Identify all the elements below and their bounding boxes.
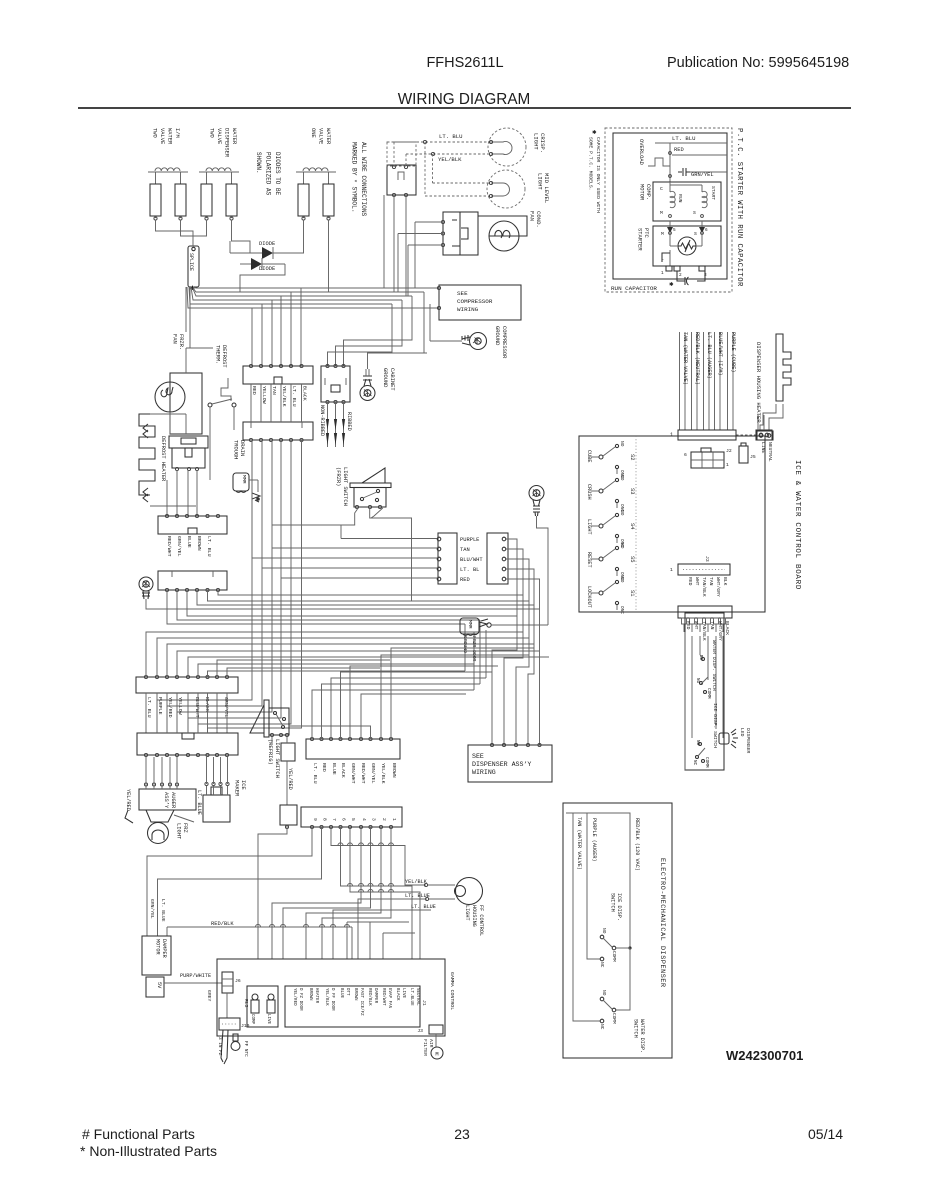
- svg-text:COMM: COMM: [611, 951, 617, 962]
- svg-text:BROWN: BROWN: [308, 988, 312, 1001]
- aux box: [280, 805, 297, 825]
- svg-text:FILTER: FILTER: [422, 1039, 428, 1056]
- damper motor: [142, 936, 171, 975]
- bypass capacitor GRN/YEL: [678, 168, 690, 176]
- svg-text:S1: S1: [629, 590, 635, 596]
- svg-text:STARTER: STARTER: [637, 228, 643, 251]
- svg-text:TAN (WATER VALVE): TAN (WATER VALVE): [576, 817, 582, 870]
- svg-text:S: S: [694, 231, 697, 237]
- PTC starter with run capacitor assembly: [605, 128, 732, 292]
- svg-text:MMM: MMM: [241, 475, 247, 484]
- svg-text:NO: NO: [695, 740, 700, 746]
- svg-text:RED/WHT: RED/WHT: [381, 988, 386, 1006]
- heater connector: [757, 431, 773, 440]
- svg-text:ALL WIRE CONNECTIONS: ALL WIRE CONNECTIONS: [360, 142, 367, 217]
- svg-text:MOTOR: MOTOR: [639, 184, 645, 201]
- svg-text:MOTOR: MOTOR: [155, 939, 161, 955]
- svg-text:6: 6: [684, 452, 687, 458]
- svg-text:YEL/BLK: YEL/BLK: [438, 156, 462, 163]
- defrost heater terminal block: [169, 436, 208, 448]
- svg-text:PURPLE (AUGER): PURPLE (AUGER): [591, 818, 597, 862]
- svg-text:FAN: FAN: [529, 211, 536, 221]
- svg-text:ONE: ONE: [310, 128, 316, 138]
- dispenser ground lug: [529, 486, 544, 501]
- svg-text:NO: NO: [619, 577, 625, 583]
- svg-text:RED/BLK (NEUTRAL): RED/BLK (NEUTRAL): [694, 332, 700, 385]
- svg-text:LT. BLUE: LT. BLUE: [196, 790, 202, 815]
- svg-text:MAKER: MAKER: [234, 780, 240, 797]
- svg-text:DIODES TO BE: DIODES TO BE: [274, 152, 281, 196]
- svg-text:NC: NC: [599, 962, 605, 968]
- svg-text:RED: RED: [685, 621, 691, 630]
- board line connector: [756, 430, 772, 440]
- svg-text:COMPRESSOR: COMPRESSOR: [457, 298, 493, 305]
- svg-text:J3: J3: [704, 556, 710, 562]
- svg-text:BLUE: BLUE: [331, 763, 337, 775]
- svg-text:DIODE: DIODE: [259, 266, 275, 272]
- svg-text:FAN: FAN: [172, 334, 178, 344]
- connector J6: [222, 972, 233, 993]
- svg-text:LIGHT SWITCH: LIGHT SWITCH: [274, 739, 280, 778]
- 5-pin connector refrig left: [438, 533, 457, 584]
- svg-text:RUN CAPACITOR: RUN CAPACITOR: [611, 285, 657, 292]
- svg-text:1: 1: [670, 567, 673, 573]
- svg-text:DISPENSER: DISPENSER: [745, 728, 751, 754]
- svg-text:LIGHT: LIGHT: [176, 823, 182, 840]
- svg-text:NEUTRAL: NEUTRAL: [767, 442, 773, 462]
- svg-text:TROUGH: TROUGH: [233, 440, 239, 459]
- svg-text:YEL/RED: YEL/RED: [292, 988, 297, 1006]
- svg-text:PURPLE: PURPLE: [460, 537, 479, 543]
- svg-text:D FZ DOOR: D FZ DOOR: [298, 988, 302, 1011]
- svg-text:J5: J5: [750, 454, 756, 460]
- connector right wires: [492, 539, 517, 745]
- defrost heater element: [139, 414, 155, 495]
- svg-text:J1: J1: [421, 1000, 427, 1006]
- svg-text:1: 1: [670, 432, 673, 438]
- wires to mid level light: [432, 154, 434, 183]
- svg-text:GROUND: GROUND: [494, 326, 500, 345]
- svg-text:YEL/RED: YEL/RED: [125, 789, 131, 811]
- svg-text:1: 1: [391, 818, 397, 821]
- svg-text:RUN: RUN: [677, 194, 683, 203]
- dispenser wires inside: [691, 636, 693, 738]
- svg-text:LIGHT: LIGHT: [533, 133, 540, 150]
- ff control housing light: [456, 878, 483, 905]
- junction drops near cabinet connector: [368, 292, 425, 353]
- svg-text:S2: S2: [629, 454, 635, 460]
- svg-text:NO: NO: [619, 510, 625, 516]
- hop bumps: [338, 843, 343, 846]
- PTC starter box: [653, 226, 721, 266]
- svg-text:COMM: COMM: [704, 757, 709, 768]
- svg-text:LIVE: LIVE: [401, 988, 405, 999]
- svg-text:WATER: WATER: [325, 128, 331, 145]
- svg-text:DISPENSER: DISPENSER: [224, 128, 230, 158]
- compressor ground lug: [470, 333, 487, 350]
- freezer light switch wires: [272, 509, 358, 525]
- svg-text:LT.BLUE: LT.BLUE: [409, 988, 413, 1006]
- svg-text:GRN/YEL: GRN/YEL: [149, 899, 155, 919]
- svg-text:SEE: SEE: [457, 290, 468, 297]
- condenser fan motor: [489, 221, 519, 251]
- svg-text:LIGHT: LIGHT: [586, 519, 592, 535]
- svg-text:MARKED BY * SYMBOL.: MARKED BY * SYMBOL.: [351, 142, 358, 213]
- FF NTC bulb: [233, 1034, 238, 1041]
- svg-text:FRZ: FRZ: [182, 823, 188, 833]
- svg-text:HOUSING: HOUSING: [471, 905, 477, 927]
- gamma control board: [217, 959, 445, 1036]
- see compressor wiring box: [439, 285, 521, 320]
- svg-text:NO: NO: [695, 678, 700, 684]
- svg-text:GRN/YEL: GRN/YEL: [176, 536, 182, 557]
- svg-text:FF NTC: FF NTC: [243, 1041, 248, 1057]
- cond fan wires: [415, 221, 443, 223]
- svg-text:LIGHT: LIGHT: [537, 173, 544, 190]
- svg-text:PURP/WHITE: PURP/WHITE: [180, 973, 211, 979]
- svg-text:LOCKOUT: LOCKOUT: [586, 586, 592, 608]
- svg-text:M: M: [660, 210, 663, 216]
- damper 5V box: [146, 977, 164, 997]
- svg-text:YELLOW: YELLOW: [261, 386, 267, 404]
- svg-text:GROUND: GROUND: [382, 368, 388, 387]
- block D wire runs: [218, 590, 523, 595]
- svg-text:1: 1: [726, 462, 729, 468]
- svg-text:TAN/BLK: TAN/BLK: [701, 577, 707, 597]
- svg-text:TWO: TWO: [152, 128, 158, 138]
- svg-text:GRN/YEL: GRN/YEL: [370, 763, 376, 784]
- svg-text:LT. BLUE: LT. BLUE: [160, 899, 166, 922]
- svg-text:BLACK: BLACK: [204, 697, 210, 712]
- svg-text:M: M: [435, 1052, 438, 1058]
- svg-text:BLACK: BLACK: [395, 988, 399, 1001]
- svg-text:BROWN: BROWN: [353, 988, 357, 1001]
- svg-text:BLACK: BLACK: [724, 621, 730, 635]
- ground lug evaporator: [139, 577, 153, 591]
- svg-text:BROWN: BROWN: [391, 763, 397, 778]
- frzr door ground wire: [491, 624, 548, 626]
- svg-text:✱: ✱: [669, 282, 674, 288]
- svg-text:BLK: BLK: [722, 577, 728, 586]
- svg-text:SWITCH: SWITCH: [610, 893, 616, 912]
- svg-text:LT. BLU (AUGER): LT. BLU (AUGER): [706, 332, 712, 379]
- mid level light: [487, 170, 525, 208]
- frzr door ground: [460, 618, 479, 634]
- board bottom connector: [678, 606, 732, 618]
- numbered connector wire runs down: [147, 827, 312, 936]
- evaporator connector block lower: [158, 571, 227, 590]
- svg-text:S4: S4: [629, 523, 635, 529]
- svg-text:DISPENSER HOUSING HEATER: DISPENSER HOUSING HEATER: [755, 342, 762, 423]
- svg-text:P.T.C. STARTER WITH RUN CAPACI: P.T.C. STARTER WITH RUN CAPACITOR: [735, 128, 743, 287]
- svg-text:ICE DISP.: ICE DISP.: [616, 893, 622, 921]
- svg-text:9: 9: [312, 818, 318, 821]
- svg-text:S3: S3: [629, 488, 635, 494]
- svg-text:HEATER: HEATER: [314, 988, 318, 1004]
- svg-text:YEL/BLK: YEL/BLK: [281, 386, 287, 407]
- svg-text:NC: NC: [692, 760, 697, 766]
- svg-text:J10: J10: [241, 1023, 250, 1029]
- svg-text:START: START: [710, 186, 716, 200]
- board input wires: [757, 415, 759, 430]
- svg-text:NO: NO: [601, 928, 607, 934]
- svg-text:6: 6: [705, 228, 708, 233]
- svg-text:LT. BLUE: LT. BLUE: [411, 904, 436, 910]
- svg-text:BROWN: BROWN: [196, 536, 202, 551]
- svg-text:FRZR.: FRZR.: [178, 334, 184, 350]
- numbered connector: [301, 807, 402, 827]
- svg-text:DEFROST HEATER: DEFROST HEATER: [160, 436, 166, 482]
- dispenser LED: [719, 733, 729, 744]
- refrig connector upper wire runs: [312, 690, 474, 739]
- svg-text:LT. BLU: LT. BLU: [291, 386, 297, 407]
- svg-text:BLU/WHT: BLU/WHT: [460, 557, 483, 563]
- svg-text:RIBBED: RIBBED: [346, 412, 352, 431]
- svg-text:FFHS2611L: FFHS2611L: [426, 55, 503, 71]
- svg-text:RED: RED: [251, 386, 257, 395]
- svg-text:SEE: SEE: [472, 753, 484, 760]
- run winding: [670, 191, 675, 207]
- svg-text:OVERLOAD: OVERLOAD: [638, 139, 644, 165]
- svg-text:C: C: [660, 186, 663, 192]
- freezer light: [148, 823, 169, 844]
- svg-text:BLACK: BLACK: [340, 763, 346, 778]
- svg-text:RED: RED: [674, 147, 684, 153]
- refrigerator door connector: [306, 739, 400, 759]
- svg-text:DTT: DTT: [345, 988, 349, 996]
- ice and water control board: [579, 436, 765, 612]
- svg-text:LT. BLU: LT. BLU: [312, 763, 318, 784]
- solenoid valve coil WATER VALVE ONE: [296, 171, 336, 173]
- svg-text:Publication No: 5995645198: Publication No: 5995645198: [667, 55, 849, 71]
- svg-text:NEUTRAL: NEUTRAL: [415, 988, 419, 1006]
- dispenser switch housing: [685, 613, 724, 770]
- svg-text:NO: NO: [619, 475, 625, 481]
- freezer NTC probe: [221, 1030, 228, 1064]
- svg-text:THERM.: THERM.: [215, 345, 221, 364]
- svg-text:BLUE: BLUE: [186, 536, 192, 548]
- YEL/RED jumper box: [281, 743, 295, 761]
- svg-text:RED/BLK: RED/BLK: [367, 988, 372, 1006]
- connector E to F wires: [145, 693, 147, 733]
- svg-text:WIRING: WIRING: [457, 306, 479, 313]
- svg-text:# Functional Parts: # Functional Parts: [82, 1126, 195, 1142]
- dispenser water switch: [600, 997, 604, 1001]
- svg-text:LIGHT: LIGHT: [464, 905, 470, 921]
- svg-text:8: 8: [322, 818, 328, 821]
- svg-text:WHT: WHT: [694, 577, 700, 586]
- svg-text:MMM: MMM: [467, 620, 473, 629]
- svg-text:3: 3: [371, 818, 377, 821]
- wire drops to freezer harness connector: [251, 308, 253, 366]
- valve interconnect wires: [156, 220, 194, 246]
- svg-text:TAN/BLK: TAN/BLK: [701, 621, 707, 641]
- svg-text:COMPRESSOR: COMPRESSOR: [501, 326, 507, 359]
- svg-text:PURPLE (CUBE): PURPLE (CUBE): [730, 332, 736, 372]
- svg-text:CRUSH: CRUSH: [586, 484, 592, 500]
- 5-pin connector wires left: [341, 538, 437, 540]
- connector J3 gamma: [429, 1025, 443, 1034]
- drain trough connector: [243, 422, 313, 440]
- svg-text:DAMPER: DAMPER: [373, 988, 377, 1004]
- svg-text:DAMPER: DAMPER: [161, 939, 167, 958]
- 5-pin connector refrig right: [487, 533, 508, 584]
- solenoid valve coil I/M WATER VALVE TWO: [148, 171, 188, 173]
- relay RL3: [247, 986, 278, 1027]
- svg-text:COMM: COMM: [611, 1013, 617, 1024]
- svg-text:RESET: RESET: [586, 552, 592, 568]
- svg-text:23: 23: [454, 1126, 470, 1142]
- svg-text:CUBE: CUBE: [586, 450, 592, 462]
- svg-text:J3: J3: [417, 1028, 423, 1034]
- cabinet ground lug: [360, 386, 375, 401]
- svg-text:AIR: AIR: [428, 1039, 434, 1048]
- svg-text:LED: LED: [739, 728, 745, 737]
- see dispenser assy wiring box: [468, 745, 552, 782]
- svg-text:TAN: TAN: [460, 547, 470, 553]
- svg-text:BLUE: BLUE: [339, 988, 343, 999]
- svg-text:TAN: TAN: [709, 621, 715, 630]
- drain trough harness wires: [250, 384, 252, 422]
- svg-text:WATER DISP.: WATER DISP.: [639, 1019, 645, 1053]
- svg-text:SOME P.T.C. MODELS.: SOME P.T.C. MODELS.: [588, 137, 594, 190]
- svg-text:YEL/RED: YEL/RED: [287, 768, 293, 790]
- svg-text:VALVE: VALVE: [318, 128, 324, 144]
- svg-text:6: 6: [341, 818, 347, 821]
- svg-text:RED/WHT: RED/WHT: [360, 763, 366, 784]
- svg-text:RED/WHT: RED/WHT: [166, 536, 172, 557]
- svg-text:05/14: 05/14: [808, 1126, 843, 1142]
- svg-text:COMM: COMM: [706, 688, 711, 699]
- svg-text:LIVE: LIVE: [266, 1014, 270, 1025]
- cabinet harness connector: [321, 366, 350, 402]
- svg-text:7: 7: [331, 818, 337, 821]
- splice: [188, 246, 199, 287]
- svg-text:VALVE: VALVE: [216, 128, 222, 144]
- svg-text:COMP: COMP: [250, 1014, 254, 1025]
- svg-text:LT. BL: LT. BL: [460, 567, 479, 573]
- svg-text:ASS’Y: ASS’Y: [163, 792, 169, 809]
- svg-text:NO: NO: [601, 990, 607, 996]
- center harness verticals: [464, 624, 466, 671]
- ice maker: [203, 795, 230, 822]
- svg-text:POLARIZED AS: POLARIZED AS: [265, 152, 272, 196]
- connector J3: [678, 564, 730, 575]
- svg-text:YEL/BLK: YEL/BLK: [324, 988, 329, 1006]
- svg-text:GAMMA CONTROL: GAMMA CONTROL: [449, 972, 455, 1010]
- svg-text:WATER DISP. SWITCH: WATER DISP. SWITCH: [711, 640, 717, 691]
- svg-text:J6: J6: [235, 978, 241, 984]
- svg-text:BLUE/WHT (I/M): BLUE/WHT (I/M): [717, 332, 723, 376]
- svg-text:SPLICE: SPLICE: [188, 253, 194, 271]
- dispenser door connector: [136, 677, 238, 693]
- compressor motor box: [653, 182, 721, 221]
- svg-text:TWO: TWO: [209, 128, 215, 138]
- solenoid valve coil WATER DISPENSER VALVE TWO: [199, 171, 239, 173]
- svg-text:LT. BLU: LT. BLU: [206, 536, 212, 557]
- board to dispenser wires: [683, 624, 685, 632]
- svg-text:TAN (WATER VALVE): TAN (WATER VALVE): [682, 332, 688, 385]
- svg-text:J2: J2: [726, 448, 732, 454]
- electro-mechanical dispenser box: [563, 803, 672, 1058]
- svg-text:DRAIN: DRAIN: [239, 440, 245, 456]
- svg-text:GRN/WHT: GRN/WHT: [350, 763, 356, 784]
- svg-text:✱: ✱: [592, 130, 597, 136]
- svg-text:SWITCH: SWITCH: [633, 1019, 639, 1038]
- svg-text:1: 1: [661, 271, 664, 276]
- svg-text:YEL/BLK: YEL/BLK: [380, 763, 386, 784]
- svg-text:2: 2: [381, 818, 387, 821]
- svg-text:GREY: GREY: [206, 990, 212, 1001]
- svg-text:FRZR DOOR: FRZR DOOR: [471, 636, 477, 662]
- svg-text:5: 5: [350, 818, 356, 821]
- svg-text:RED/BLK (120 VAC): RED/BLK (120 VAC): [634, 818, 640, 871]
- svg-text:DISPENSER ASS’Y: DISPENSER ASS’Y: [472, 761, 531, 768]
- svg-text:D FF DOOR: D FF DOOR: [330, 988, 334, 1011]
- auger motor assembly: [139, 789, 196, 810]
- svg-text:CABINET: CABINET: [389, 368, 395, 391]
- svg-text:LT. BLU: LT. BLU: [146, 697, 152, 718]
- svg-text:ICE: ICE: [240, 780, 246, 790]
- svg-text:ICE DISP. SWITCH: ICE DISP. SWITCH: [712, 703, 718, 748]
- svg-text:LIGHT SWITCH: LIGHT SWITCH: [342, 467, 348, 506]
- refrig light switch wires: [276, 714, 283, 726]
- svg-text:ICE & WATER CONTROL BOARD: ICE & WATER CONTROL BOARD: [793, 460, 801, 590]
- svg-text:NO: NO: [619, 441, 625, 447]
- svg-text:WHT/GRY: WHT/GRY: [715, 577, 721, 597]
- svg-text:GROUND: GROUND: [462, 636, 468, 653]
- svg-text:BLACK: BLACK: [302, 386, 308, 401]
- svg-text:WHT/GRY: WHT/GRY: [717, 621, 723, 641]
- svg-text:COMP.: COMP.: [645, 184, 651, 200]
- svg-text:M: M: [661, 231, 664, 237]
- freezer harness connector upper: [243, 366, 313, 384]
- svg-text:ONC: ONC: [619, 606, 625, 614]
- svg-text:I/M: I/M: [174, 128, 180, 138]
- svg-text:WATER: WATER: [167, 128, 173, 145]
- title rule: [78, 107, 851, 109]
- evaporator connector block: [158, 516, 227, 534]
- crisp light: [488, 128, 526, 166]
- svg-text:S: S: [693, 210, 696, 216]
- svg-text:4: 4: [361, 818, 367, 821]
- svg-text:W242300701: W242300701: [726, 1048, 803, 1063]
- ff housing wire runs: [358, 899, 427, 959]
- dispenser housing heater: [776, 334, 791, 401]
- svg-text:LT. BLU: LT. BLU: [439, 133, 463, 140]
- svg-text:2: 2: [679, 273, 682, 278]
- connector J1: [285, 986, 420, 1027]
- svg-text:LT. BLU: LT. BLU: [672, 135, 696, 142]
- svg-text:ELECTRO-MECHANICAL DISPENSER: ELECTRO-MECHANICAL DISPENSER: [658, 858, 666, 988]
- svg-text:WIRING: WIRING: [472, 769, 496, 776]
- board top connector: [678, 430, 736, 440]
- drain trough heater: [233, 473, 249, 491]
- svg-text:WIRING DIAGRAM: WIRING DIAGRAM: [398, 91, 531, 108]
- svg-text:CAPACITOR IS ONLY USED WITH: CAPACITOR IS ONLY USED WITH: [595, 137, 601, 213]
- svg-text:PTC: PTC: [643, 228, 649, 238]
- connector J5: [739, 446, 748, 463]
- svg-text:SHOWN.: SHOWN.: [255, 152, 262, 174]
- svg-text:TAN: TAN: [271, 386, 277, 395]
- svg-text:DEFROST: DEFROST: [221, 345, 227, 368]
- drain bundle staircase to connector F: [157, 440, 252, 733]
- dispenser door connector lower: [137, 733, 238, 755]
- svg-text:WHT: WHT: [693, 621, 699, 630]
- svg-text:5V: 5V: [156, 982, 162, 989]
- starter pins: [666, 266, 672, 271]
- svg-text:NC: NC: [599, 1024, 605, 1030]
